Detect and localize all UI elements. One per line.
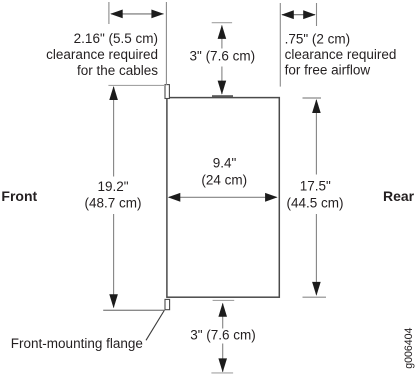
svg-text:(24 cm): (24 cm) <box>201 173 247 188</box>
svg-text:3" (7.6 cm): 3" (7.6 cm) <box>190 49 256 64</box>
svg-text:clearance required: clearance required <box>285 47 397 62</box>
3in bottom extension tick <box>211 372 233 374</box>
svg-text:19.2": 19.2" <box>97 179 128 194</box>
2.16in left extension tick <box>108 2 110 24</box>
2.16in cable-clearance extension line <box>165 2 167 85</box>
top front-mounting flange <box>165 85 169 99</box>
2.16in clearance label <box>46 31 158 78</box>
svg-text:(44.5 cm): (44.5 cm) <box>286 196 343 211</box>
svg-text:17.5": 17.5" <box>300 178 331 193</box>
svg-text:Front-mounting flange: Front-mounting flange <box>11 336 143 351</box>
0.75in left extension line <box>279 3 281 87</box>
17.5in label <box>286 178 343 210</box>
19.2in dimension arrow <box>109 86 118 308</box>
9.4in dimension arrow <box>168 193 278 202</box>
flange pointer line <box>146 310 164 340</box>
19.2in label <box>84 179 141 211</box>
0.75in right extension tick <box>316 3 318 26</box>
svg-text:Front: Front <box>1 188 37 204</box>
bottom front-mounting flange <box>165 299 170 309</box>
2.16in dimension arrow <box>110 10 164 19</box>
17.5in dimension arrow <box>312 99 321 296</box>
svg-text:3" (7.6 cm): 3" (7.6 cm) <box>190 327 256 342</box>
svg-text:.75" (2 cm): .75" (2 cm) <box>285 32 351 47</box>
flange top extension line <box>108 84 165 86</box>
3in top dimension arrow <box>218 25 227 95</box>
3in top extension tick <box>212 22 232 24</box>
chassis bottom extension tick <box>213 299 235 301</box>
0.75in clearance label <box>285 32 397 78</box>
9.4in label <box>201 155 247 187</box>
chassis (top view) <box>167 98 279 298</box>
flange bottom extension line <box>103 309 165 311</box>
svg-text:9.4": 9.4" <box>213 155 237 170</box>
17.5in top extension tick <box>303 97 322 99</box>
svg-text:2.16" (5.5 cm): 2.16" (5.5 cm) <box>74 31 158 46</box>
3in bottom dimension arrow <box>218 303 227 373</box>
svg-text:for the cables: for the cables <box>77 63 158 78</box>
svg-text:clearance required: clearance required <box>46 47 158 62</box>
chassis top edge tick <box>212 95 233 97</box>
svg-text:for free airflow: for free airflow <box>285 63 371 78</box>
svg-text:Rear: Rear <box>383 188 415 204</box>
svg-text:g006404: g006404 <box>403 327 415 368</box>
svg-text:(48.7 cm): (48.7 cm) <box>84 196 141 211</box>
17.5in bottom extension tick <box>303 296 327 298</box>
0.75in dimension arrow <box>281 10 315 19</box>
